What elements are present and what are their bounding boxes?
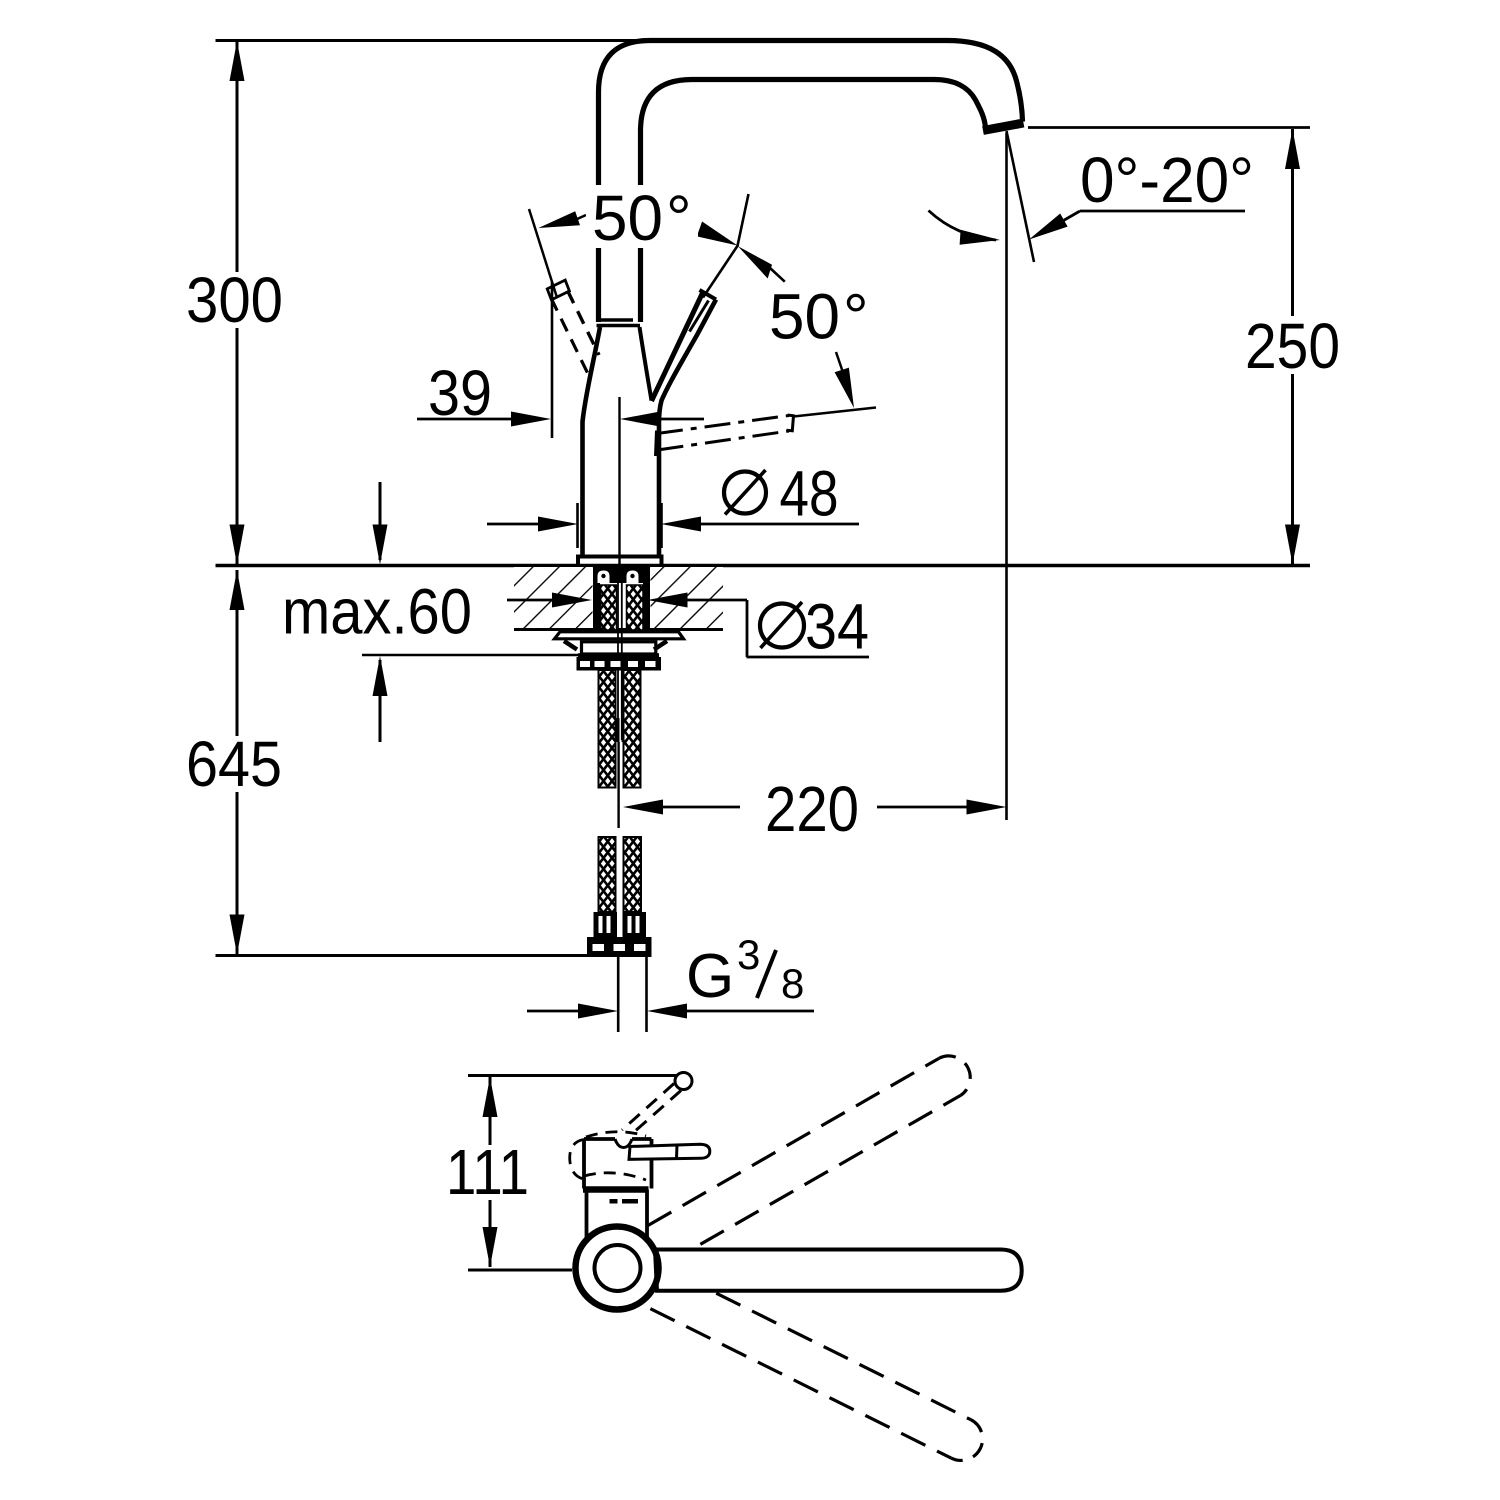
spout arm solid (pointing right) bbox=[655, 1250, 1022, 1291]
diam34 leader step down bbox=[746, 600, 749, 657]
dash-dot lever lower edge bbox=[658, 431, 790, 450]
hose loop inner dot right bbox=[630, 574, 634, 578]
arrowhead 250 bottom bbox=[1285, 525, 1300, 565]
svg-text:39: 39 bbox=[428, 357, 492, 429]
hose loop cutout left bbox=[598, 571, 610, 584]
label 50deg first bbox=[586, 187, 698, 246]
right 50deg bowtie arrowhead lower bbox=[738, 246, 772, 278]
tilted spray direction line (0-20deg) bbox=[1007, 131, 1035, 262]
cartridge housing right side bbox=[650, 1139, 654, 1189]
svg-text:G: G bbox=[686, 942, 734, 1011]
dashed spout arm upper-right edge 1 bbox=[648, 1058, 939, 1225]
lower body dash marks bbox=[610, 1199, 618, 1204]
dashed lever (left position) left edge bbox=[551, 298, 590, 378]
shank top nut mass bbox=[593, 567, 650, 584]
center stud line right bbox=[621, 566, 623, 740]
left 50deg arrowhead bbox=[538, 211, 580, 228]
center stud line left bbox=[617, 566, 619, 740]
connector band white slots bbox=[593, 944, 605, 951]
hose loop cutout right bbox=[627, 571, 639, 584]
diam48 extension tick left bbox=[576, 503, 579, 548]
dimension line 250 (right, segment below text) bbox=[1291, 374, 1294, 565]
dimension line 300 (left, segment below text) bbox=[236, 328, 239, 565]
arrowhead 111 top bbox=[483, 1077, 498, 1117]
mounting nut outline bbox=[582, 642, 656, 654]
G3/8 tail pipe left line bbox=[617, 957, 620, 1032]
top view upper reference line (111 top) bbox=[468, 1074, 682, 1077]
hose upper segment right bbox=[624, 670, 641, 788]
dashed handle base arc left bbox=[570, 1140, 584, 1180]
svg-text:°: ° bbox=[843, 281, 869, 353]
max.60 lower extension with up arrow bbox=[379, 660, 382, 742]
center line through hose break bbox=[617, 742, 619, 828]
right 50deg bowtie arrowhead upper bbox=[697, 222, 738, 246]
spout pipe inner left (lower segment) bbox=[638, 248, 643, 322]
dashed spout arm upper-right edge 2 bbox=[700, 1095, 960, 1244]
arrowhead 250 top bbox=[1285, 129, 1300, 169]
dash-dot lever upper edge bbox=[657, 416, 789, 434]
housing pivot notch bbox=[615, 1139, 632, 1148]
locknut white slots bbox=[580, 661, 590, 667]
label diam34 symbol bbox=[760, 604, 804, 648]
50deg label-2 leader arrowhead bbox=[835, 368, 854, 408]
dash-dot lever (lowered position) base cap bbox=[656, 431, 657, 457]
spout pipe outer left (lower segment) bbox=[596, 248, 601, 322]
0-20 degree leader diagonal bbox=[1040, 211, 1080, 234]
arrowhead 645 top bbox=[230, 570, 245, 610]
dashed lever (left position) right edge bbox=[568, 291, 600, 356]
max.60 reference line at flange bottom bbox=[362, 654, 578, 657]
body joint line lower bbox=[597, 324, 641, 328]
countertop reference line bbox=[216, 564, 1311, 568]
spout-tip reference line (250 dimension, top) bbox=[1028, 126, 1310, 129]
right 50deg extension line (solid lever axis) bbox=[703, 194, 749, 298]
swivel arc at spout tip bbox=[929, 211, 997, 241]
hose connector left bbox=[594, 912, 618, 937]
svg-text:max.60: max.60 bbox=[282, 576, 472, 648]
spout base outer ring bbox=[576, 1227, 659, 1310]
arrowhead 300 top bbox=[230, 41, 245, 81]
hose loop inner dot left bbox=[601, 574, 605, 578]
50deg label-2 leader line bbox=[836, 352, 849, 390]
cartridge housing rectangle top edge bbox=[584, 1137, 652, 1141]
top reference line (300 dimension, top) bbox=[216, 39, 649, 42]
dash-dot lever tip cap bbox=[787, 415, 794, 431]
left 50deg arc tail stub bbox=[576, 215, 586, 220]
bottom reference line of 645 dimension bbox=[216, 954, 589, 957]
dimension line 645 (segment above text) bbox=[236, 570, 239, 736]
center axis line of faucet body bbox=[618, 397, 620, 565]
center stud end bars bbox=[616, 718, 620, 742]
svg-text:48: 48 bbox=[780, 458, 839, 530]
dashed spout arm upper-right end cap bbox=[939, 1056, 970, 1095]
dimension line 111 lower segment bbox=[489, 1200, 492, 1267]
dimension G3/8: left line with right-pointing arrow bbox=[527, 1010, 582, 1013]
dimension diam48: left line with right-pointing arrow bbox=[487, 523, 542, 526]
solid lever inner line bbox=[690, 301, 709, 332]
vertical reference line from spout tip down to 220 line bbox=[1005, 133, 1008, 820]
flange cone left slant bbox=[564, 641, 577, 650]
spout pipe outer contour (upper) bbox=[599, 41, 1023, 186]
locknut black band bbox=[577, 657, 662, 671]
nut bottom plate bbox=[578, 653, 659, 658]
solid lever tip cap bbox=[700, 290, 717, 300]
escutcheon flange plate bbox=[555, 632, 684, 639]
dimension line 111 upper segment bbox=[489, 1077, 492, 1145]
dashed arc above housing bbox=[586, 1132, 646, 1137]
label 645 bbox=[181, 737, 288, 791]
dimension diam34: left line with right-pointing arrow bbox=[507, 599, 556, 602]
svg-text:111: 111 bbox=[446, 1136, 529, 1208]
arrowhead 300 bottom bbox=[230, 525, 245, 565]
swivel arc arrowhead bbox=[960, 230, 1000, 245]
arrowhead 645 bottom bbox=[230, 915, 245, 955]
G3/8 tail pipe right line bbox=[645, 957, 648, 1032]
connector end band bbox=[587, 937, 652, 957]
dashed handle knob (top view) bbox=[675, 1073, 692, 1090]
svg-text:°: ° bbox=[666, 182, 692, 254]
svg-text:250: 250 bbox=[1245, 310, 1340, 382]
dashed spout arm lower-right edge 1 bbox=[716, 1293, 970, 1419]
dimension diam34: right line with left-pointing arrow bbox=[683, 599, 747, 602]
hose lower segment left bbox=[599, 837, 616, 912]
label 300 bbox=[181, 273, 288, 327]
shank braid right bbox=[627, 585, 644, 630]
base plinth bbox=[578, 557, 662, 566]
dimension 220: left-pointing arrow at center axis bbox=[623, 800, 663, 815]
svg-text:645: 645 bbox=[186, 728, 282, 800]
hose lower segment right bbox=[624, 837, 642, 912]
countertop hatch left bbox=[514, 567, 593, 629]
dashed handle edge 1 bbox=[622, 1084, 674, 1131]
max.60 upper extension with down arrow bbox=[379, 482, 382, 560]
dash-dot lever extension line bbox=[794, 408, 877, 417]
body divider thick line bbox=[583, 1186, 649, 1193]
hose upper segment left bbox=[599, 670, 616, 788]
left 50deg extension line bbox=[529, 209, 557, 296]
svg-text:50: 50 bbox=[769, 281, 840, 353]
dimension line 645 (segment below text) bbox=[236, 792, 239, 955]
lever rod (top view, solid) bbox=[629, 1144, 710, 1159]
solid lever lower-left edge bbox=[652, 293, 703, 401]
solid lever right edge flowing into body right edge bbox=[659, 300, 716, 557]
dashed arc inside housing bbox=[584, 1173, 646, 1180]
cartridge housing left side bbox=[582, 1139, 586, 1189]
connector white slots bbox=[599, 916, 603, 933]
dimension diam48: right line with left-pointing arrow bbox=[697, 523, 859, 526]
dashed spout arm lower-right end cap bbox=[951, 1420, 982, 1461]
dimension line 250 (right, segment above text) bbox=[1291, 129, 1294, 316]
body neck left edge bbox=[583, 327, 601, 556]
countertop bottom line bbox=[514, 628, 723, 631]
dashed lever (left position) tip cap bbox=[547, 280, 569, 300]
dimension 39: left line and right-pointing arrow bbox=[417, 418, 515, 421]
arrowhead 111 bottom bbox=[483, 1227, 498, 1267]
dimension 39: right line and left-pointing arrow bbox=[659, 418, 704, 421]
threaded shank left black band bbox=[593, 566, 600, 630]
lower body right side bbox=[645, 1190, 649, 1239]
flange cone right slant bbox=[654, 641, 667, 650]
label 250 bbox=[1240, 317, 1346, 373]
fraction slash of G3/8 bbox=[757, 950, 776, 998]
svg-text:300: 300 bbox=[186, 264, 283, 336]
top view lower reference line (111 bottom) bbox=[468, 1269, 572, 1272]
spout base inner ring bbox=[595, 1245, 641, 1291]
threaded shank right black band bbox=[643, 566, 650, 630]
diam34 leader underline bbox=[747, 656, 870, 659]
dimension 220: right segment and right-pointing arrow bbox=[877, 806, 970, 809]
lever rod joint tick bbox=[675, 1145, 679, 1159]
dimension G3/8: right line with left-pointing arrow bbox=[683, 1010, 814, 1013]
svg-text:8: 8 bbox=[781, 960, 804, 1007]
label 111 bbox=[438, 1145, 535, 1200]
dashed handle edge 2 bbox=[634, 1091, 681, 1133]
dimension line 300 (left, segment above text) bbox=[236, 41, 239, 273]
lower body left side bbox=[585, 1190, 589, 1239]
extension line for lever extreme position (39 dim) bbox=[551, 282, 554, 438]
diam48 extension tick right bbox=[660, 503, 663, 548]
body neck right edge down to V notch bbox=[640, 327, 652, 401]
svg-text:3: 3 bbox=[737, 931, 760, 978]
svg-text:220: 220 bbox=[765, 773, 859, 845]
label diam48 symbol bbox=[724, 472, 766, 514]
0-20 degree leader arrowhead bbox=[1029, 214, 1068, 240]
hose connector right bbox=[623, 912, 647, 937]
50deg angle-arc tail line bbox=[770, 268, 785, 282]
shank braid left bbox=[601, 585, 617, 630]
dashed spout arm lower-right edge 2 bbox=[650, 1309, 951, 1459]
svg-text:50: 50 bbox=[592, 182, 663, 254]
0-20 degree leader underline bbox=[1080, 210, 1245, 213]
spout nozzle end face bbox=[983, 123, 1024, 131]
svg-text:34: 34 bbox=[805, 591, 869, 663]
svg-text:0°-20°: 0°-20° bbox=[1080, 144, 1254, 216]
spout pipe inner contour (upper) bbox=[641, 80, 986, 186]
countertop hatch right bbox=[651, 567, 724, 629]
body joint line upper bbox=[598, 318, 633, 322]
